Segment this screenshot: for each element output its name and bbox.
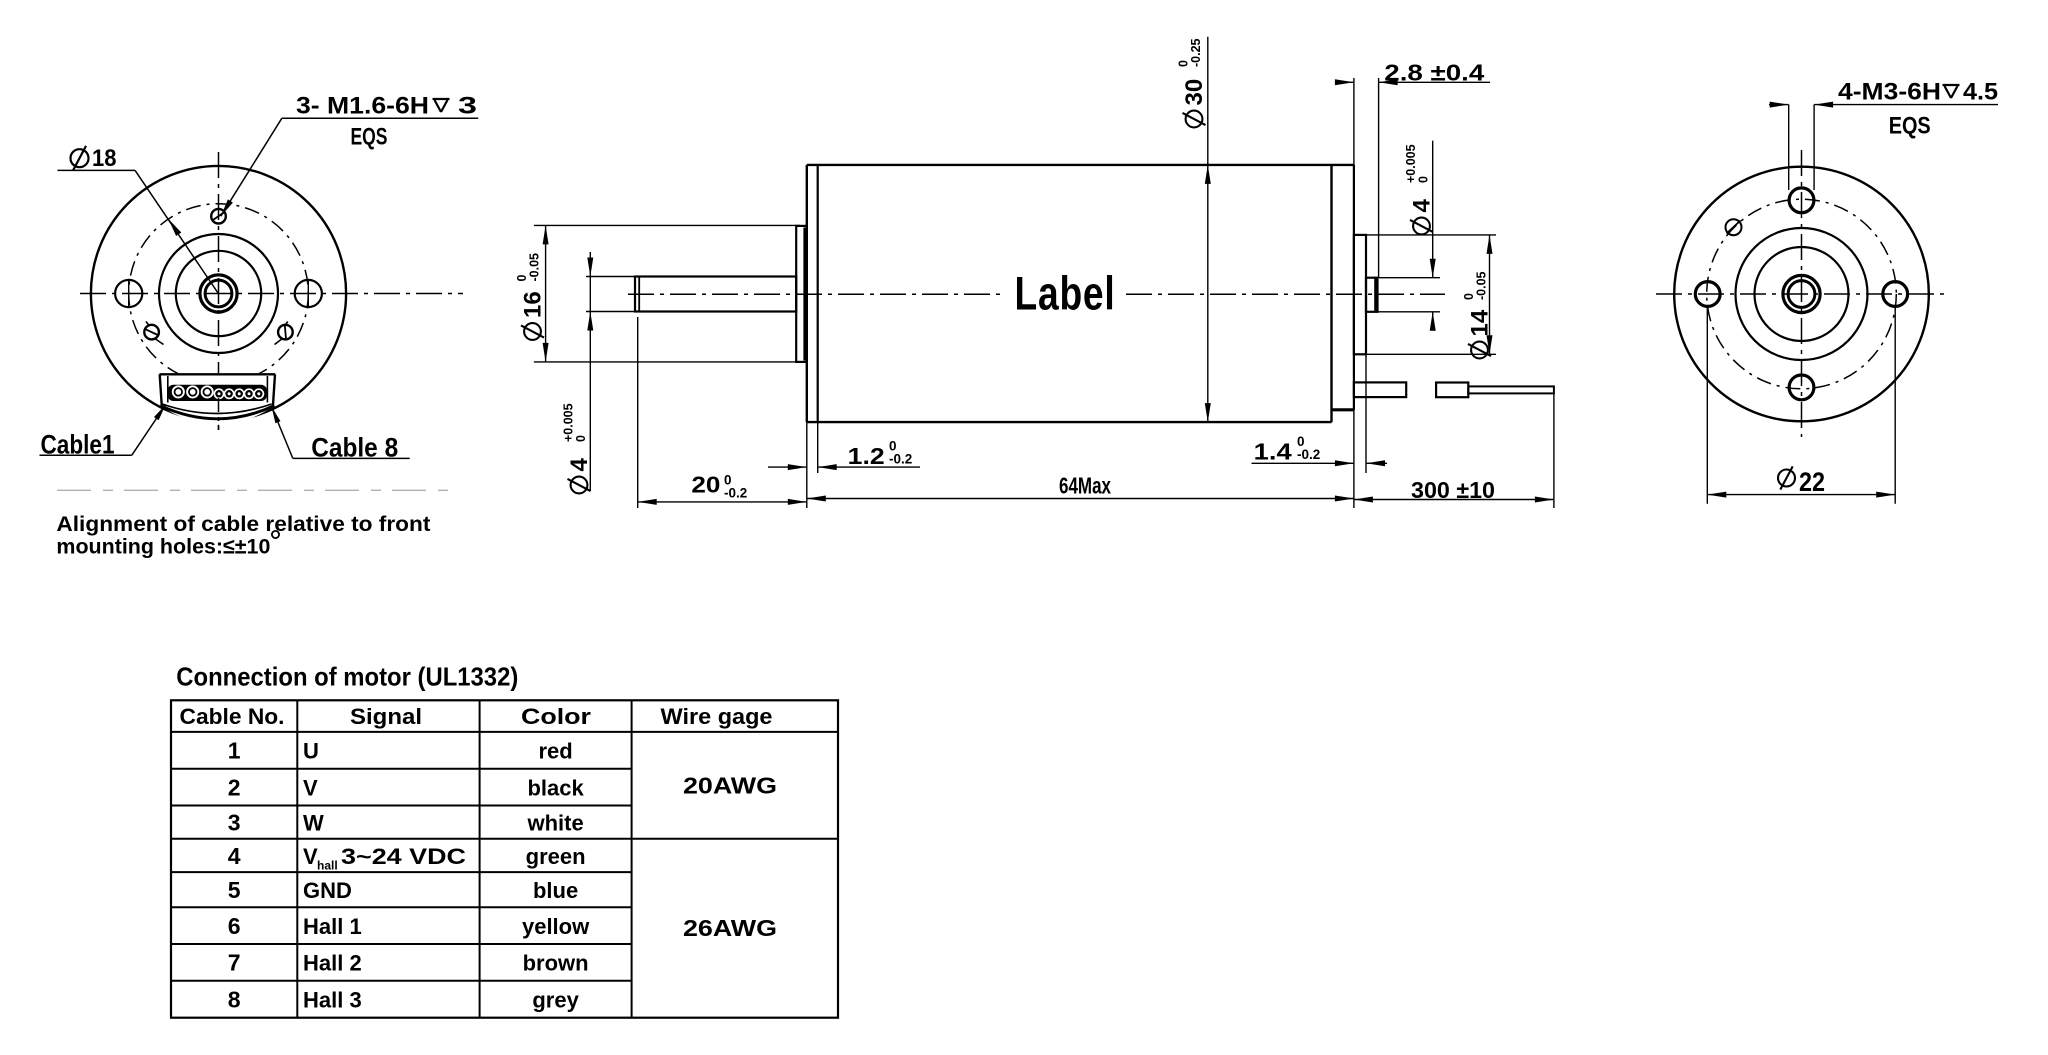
svg-text:14: 14 bbox=[1467, 309, 1494, 336]
svg-text:EQS: EQS bbox=[351, 123, 388, 150]
svg-text:Hall 3: Hall 3 bbox=[303, 988, 362, 1013]
svg-text:3: 3 bbox=[458, 93, 477, 120]
svg-text:-0.05: -0.05 bbox=[1475, 271, 1489, 300]
svg-text:Hall 1: Hall 1 bbox=[303, 914, 362, 939]
svg-text:Signal: Signal bbox=[350, 704, 422, 729]
svg-text:20: 20 bbox=[691, 472, 720, 498]
svg-text:22: 22 bbox=[1799, 467, 1825, 497]
svg-text:7: 7 bbox=[228, 950, 241, 976]
svg-text:V: V bbox=[303, 844, 318, 869]
svg-text:5: 5 bbox=[228, 877, 241, 903]
svg-text:4: 4 bbox=[566, 458, 593, 472]
svg-text:16: 16 bbox=[520, 291, 547, 318]
svg-text:-0.2: -0.2 bbox=[889, 452, 912, 467]
svg-text:W: W bbox=[303, 811, 324, 836]
svg-text:grey: grey bbox=[532, 988, 579, 1013]
svg-text:green: green bbox=[526, 844, 586, 869]
svg-text:red: red bbox=[538, 739, 572, 764]
svg-text:8: 8 bbox=[228, 987, 241, 1013]
svg-text:1.4: 1.4 bbox=[1254, 439, 1292, 465]
svg-text:hall: hall bbox=[317, 859, 338, 873]
svg-text:yellow: yellow bbox=[522, 914, 590, 939]
svg-text:3- M1.6-6H: 3- M1.6-6H bbox=[296, 93, 429, 120]
svg-text:Alignment of cable relative to: Alignment of cable relative to front bbox=[56, 512, 430, 536]
svg-text:26AWG: 26AWG bbox=[683, 915, 777, 941]
svg-text:Wire gage: Wire gage bbox=[661, 704, 773, 729]
svg-text:3~24 VDC: 3~24 VDC bbox=[341, 844, 466, 869]
svg-text:1: 1 bbox=[228, 738, 241, 764]
svg-text:4-M3-6H: 4-M3-6H bbox=[1838, 79, 1941, 106]
svg-text:4.5: 4.5 bbox=[1963, 79, 1998, 106]
svg-text:U: U bbox=[303, 739, 319, 764]
svg-text:mounting holes:≤±10: mounting holes:≤±10 bbox=[56, 535, 270, 559]
svg-text:Color: Color bbox=[521, 704, 592, 729]
svg-text:-0.05: -0.05 bbox=[528, 253, 542, 282]
svg-text:black: black bbox=[527, 775, 584, 800]
svg-text:4: 4 bbox=[228, 843, 241, 869]
svg-text:18: 18 bbox=[92, 145, 117, 172]
svg-text:2.8 ±0.4: 2.8 ±0.4 bbox=[1384, 60, 1484, 86]
svg-text:4: 4 bbox=[1409, 199, 1436, 213]
svg-text:30: 30 bbox=[1181, 79, 1208, 106]
svg-text:GND: GND bbox=[303, 878, 352, 903]
svg-text:-0.2: -0.2 bbox=[724, 486, 747, 501]
svg-text:Hall 2: Hall 2 bbox=[303, 951, 362, 976]
svg-text:0: 0 bbox=[574, 435, 588, 442]
svg-text:Connection of motor (UL1332): Connection of motor (UL1332) bbox=[176, 662, 518, 692]
svg-text:-0.25: -0.25 bbox=[1189, 38, 1203, 67]
svg-text:3: 3 bbox=[228, 810, 241, 836]
svg-text:6: 6 bbox=[228, 913, 241, 939]
svg-text:brown: brown bbox=[523, 951, 589, 976]
svg-text:Label: Label bbox=[1015, 267, 1116, 320]
svg-text:V: V bbox=[303, 775, 318, 800]
svg-text:64Max: 64Max bbox=[1059, 473, 1111, 499]
svg-text:EQS: EQS bbox=[1889, 112, 1931, 139]
svg-text:-0.2: -0.2 bbox=[1297, 447, 1320, 462]
svg-text:white: white bbox=[526, 811, 583, 836]
svg-text:1.2: 1.2 bbox=[848, 443, 885, 469]
svg-text:20AWG: 20AWG bbox=[683, 772, 777, 798]
svg-text:Cable No.: Cable No. bbox=[180, 704, 285, 729]
svg-text:300 ±10: 300 ±10 bbox=[1411, 477, 1495, 503]
svg-text:2: 2 bbox=[228, 774, 241, 800]
svg-text:blue: blue bbox=[533, 878, 578, 903]
svg-text:0: 0 bbox=[1417, 176, 1431, 183]
